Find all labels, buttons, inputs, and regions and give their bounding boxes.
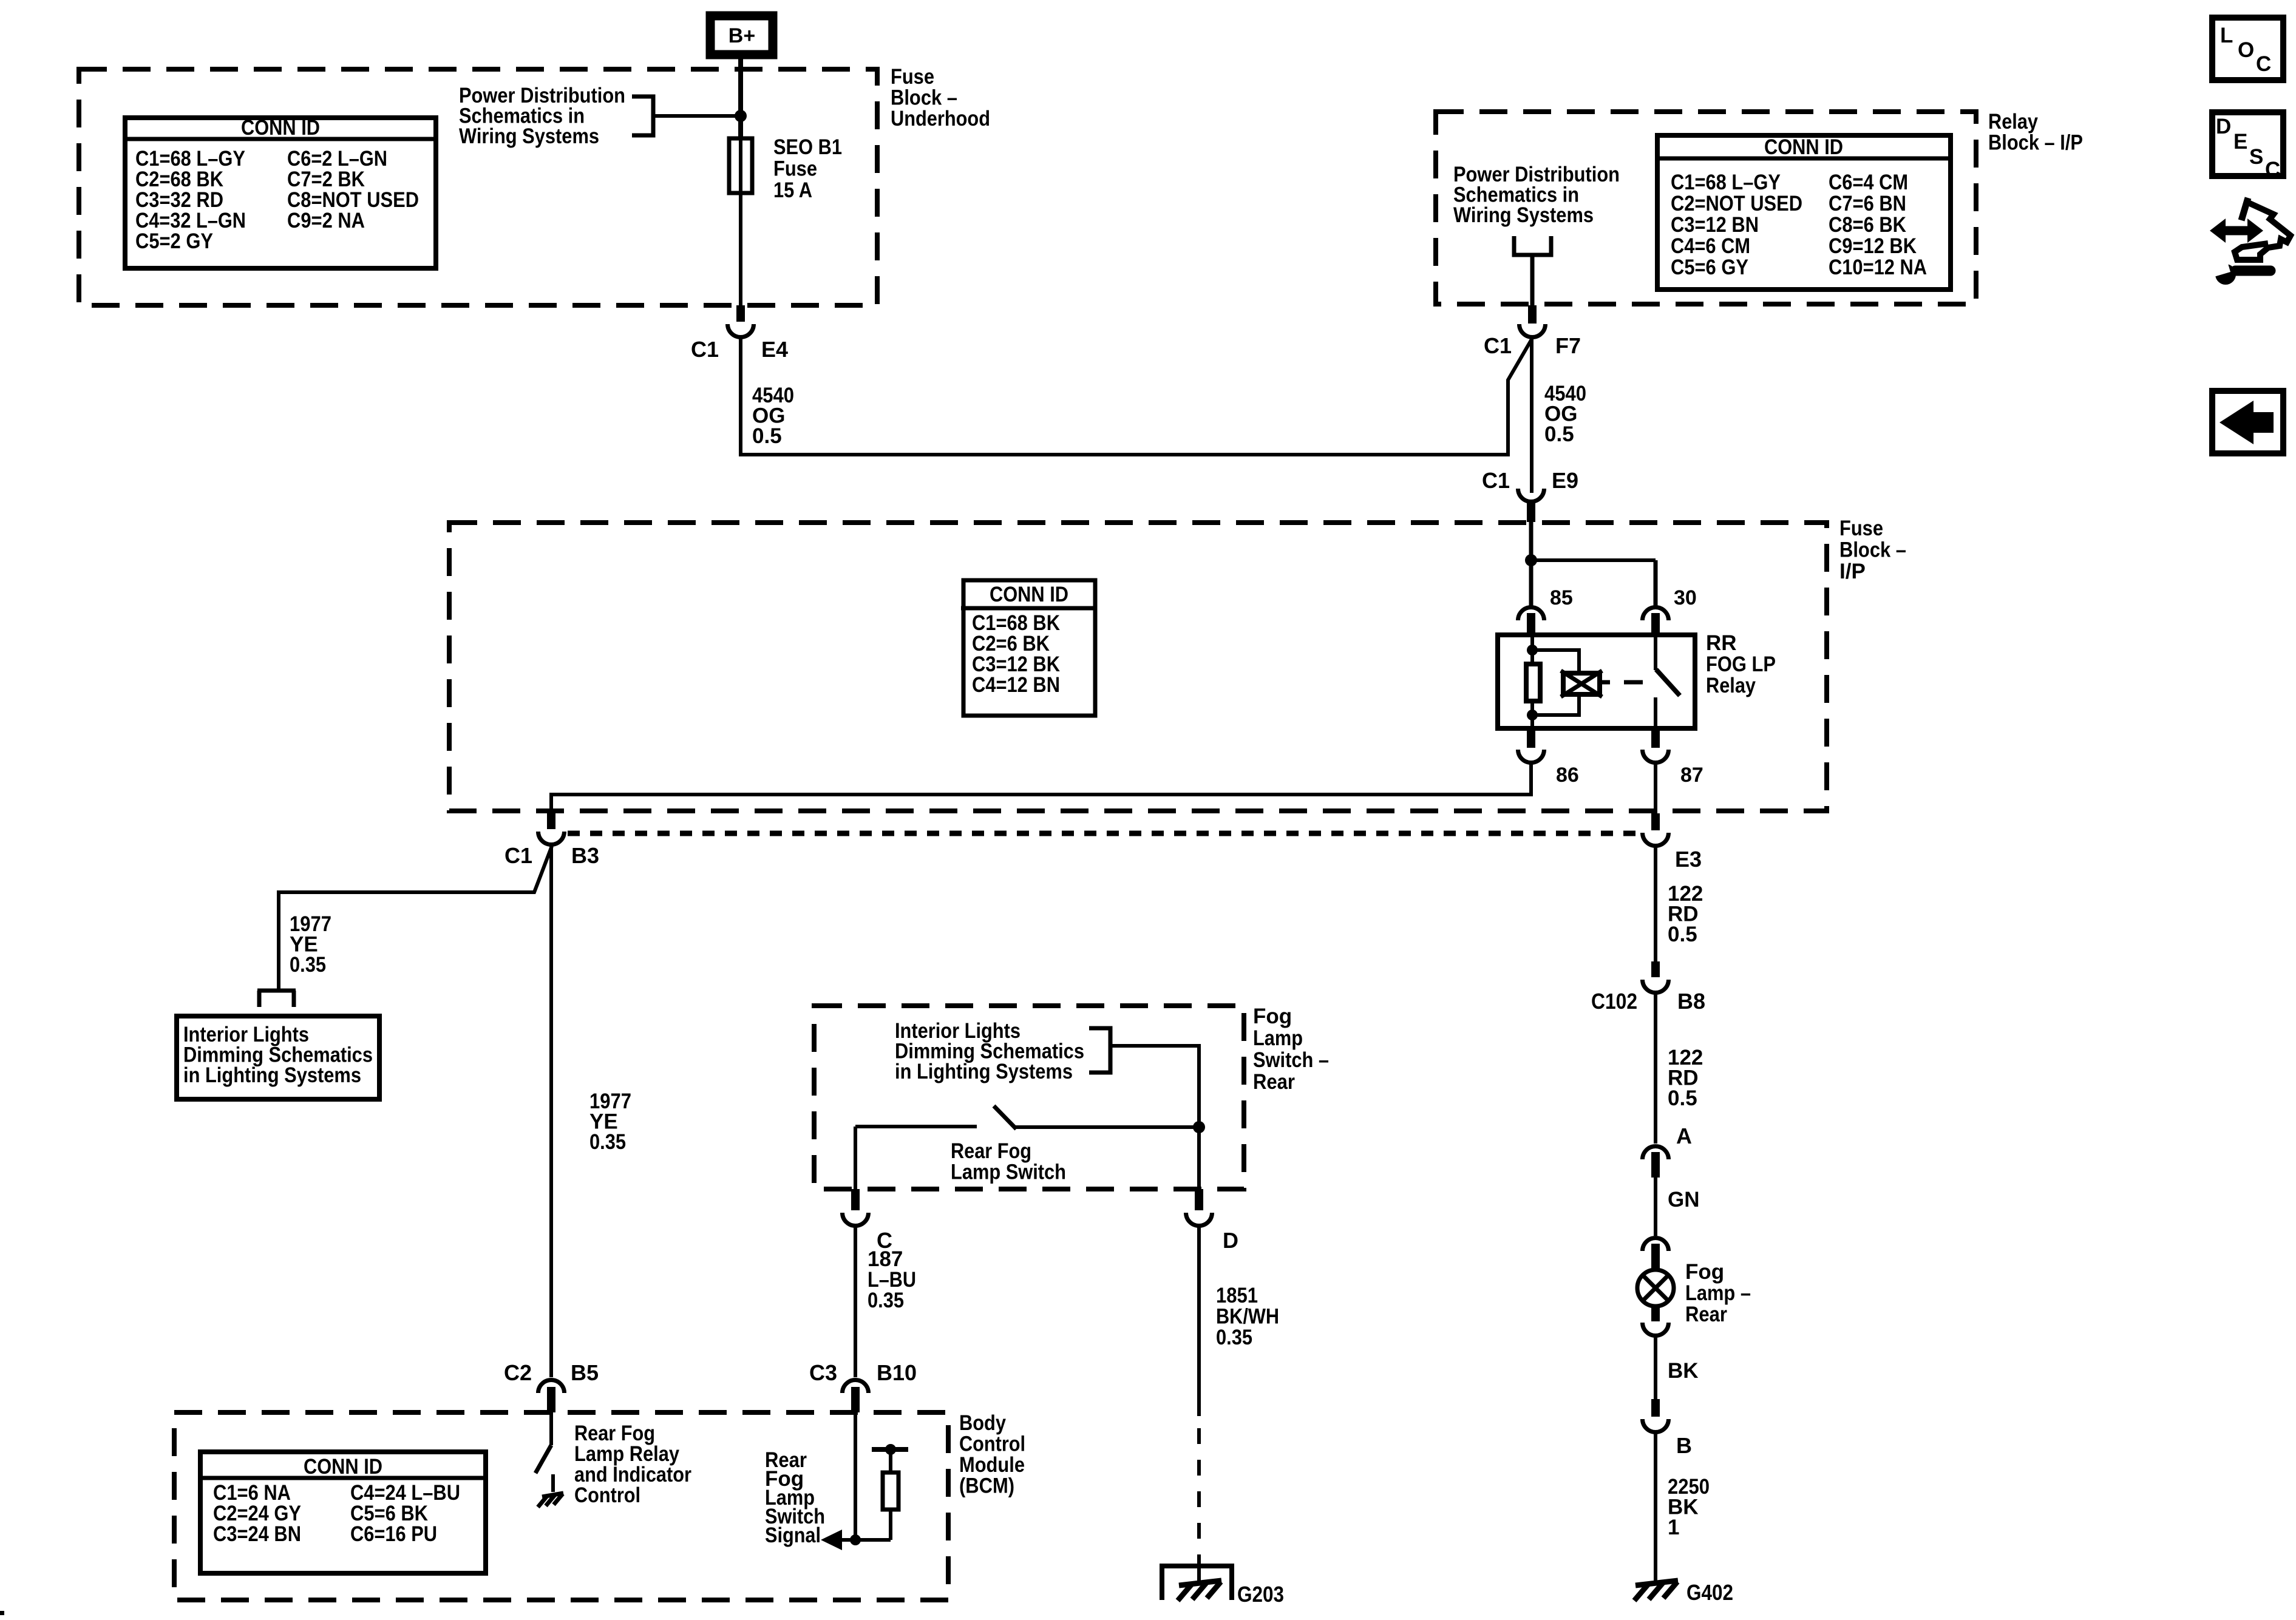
CONN ID table (Fuse Block - I/P) <box>961 580 1097 716</box>
svg-text:in Lighting Systems: in Lighting Systems <box>183 1063 361 1087</box>
icon button back arrow <box>2212 391 2283 453</box>
dotted harness line between B3 and E3 <box>568 831 1641 836</box>
svg-text:C1=68 L–GY: C1=68 L–GY <box>1671 171 1781 194</box>
svg-text:A: A <box>1676 1123 1692 1148</box>
svg-text:E3: E3 <box>1675 847 1702 872</box>
wire: fog lamp to connector B (BK) <box>1654 1337 1657 1399</box>
svg-text:E: E <box>2233 130 2247 154</box>
page corner mark <box>0 1611 4 1615</box>
svg-text:BK: BK <box>1668 1359 1699 1383</box>
svg-text:C7=6 BN: C7=6 BN <box>1829 192 1906 215</box>
switch: rear fog lamp switch <box>855 1106 1199 1189</box>
bracket: power distribution tap (left) <box>632 97 653 135</box>
svg-text:B: B <box>1676 1433 1692 1458</box>
svg-text:86: 86 <box>1556 764 1579 787</box>
wire: B3 branch to interior lights schematic <box>279 846 552 989</box>
wire: bracket to B+ feed <box>653 114 741 118</box>
label Relay Block - I/P <box>1988 110 2083 155</box>
svg-text:30: 30 <box>1674 586 1697 609</box>
svg-text:SEO B1: SEO B1 <box>773 135 842 159</box>
label 1977 YE 0.35 (branch) <box>290 912 331 977</box>
connector pin 86 <box>1518 728 1544 763</box>
dashed box: Fuse Block - I/P <box>449 523 1827 811</box>
svg-text:C102: C102 <box>1591 989 1637 1014</box>
wire: A to fog lamp (GN) <box>1654 1178 1657 1236</box>
svg-text:C1: C1 <box>691 337 719 362</box>
svg-text:D: D <box>2216 115 2231 138</box>
svg-text:C: C <box>2256 52 2271 76</box>
svg-text:GN: GN <box>1668 1188 1700 1212</box>
svg-text:G402: G402 <box>1686 1580 1733 1605</box>
svg-text:Lamp –: Lamp – <box>1685 1281 1751 1305</box>
svg-text:Block – I/P: Block – I/P <box>1988 131 2083 155</box>
connector pin 85 <box>1518 608 1544 637</box>
svg-text:B+: B+ <box>729 24 755 47</box>
svg-text:B5: B5 <box>571 1360 599 1385</box>
svg-text:Fuse: Fuse <box>891 65 934 89</box>
wire: C to B10 (187 L-BU) <box>854 1226 857 1377</box>
wire: E4 down, right to relay block riser <box>741 337 1532 455</box>
label 1851 BK/WH 0.35 <box>1216 1284 1279 1349</box>
label RR FOG LP Relay <box>1706 631 1776 697</box>
svg-text:Control: Control <box>959 1432 1025 1456</box>
bracket: interior lights dimming tap <box>1089 1028 1199 1127</box>
connector D (switch) <box>1186 1189 1212 1225</box>
svg-text:C6=4 CM: C6=4 CM <box>1829 171 1908 194</box>
connector: fog lamp bottom <box>1643 1306 1669 1336</box>
connector C3 B10 <box>843 1380 869 1413</box>
junction dot at fuse feed <box>735 110 747 122</box>
svg-text:Relay: Relay <box>1988 110 2038 134</box>
connector E3 <box>1643 813 1669 846</box>
relay RR FOG LP Relay <box>1498 635 1695 728</box>
svg-text:C3=12 BN: C3=12 BN <box>1671 213 1759 237</box>
svg-text:C9=2 NA: C9=2 NA <box>287 209 365 232</box>
svg-text:Fuse: Fuse <box>1839 517 1883 540</box>
fog lamp rear bulb <box>1637 1270 1674 1306</box>
svg-text:C3=24 BN: C3=24 BN <box>213 1522 301 1546</box>
connector C (switch) <box>843 1189 869 1225</box>
svg-text:C6=16 PU: C6=16 PU <box>350 1522 437 1546</box>
svg-text:Relay: Relay <box>1706 674 1756 697</box>
svg-text:C1: C1 <box>504 843 532 868</box>
svg-text:E4: E4 <box>761 337 788 362</box>
wire: F7 down to E9 <box>1530 339 1533 493</box>
ground G402 <box>1634 1581 1678 1601</box>
svg-text:15 A: 15 A <box>773 178 812 202</box>
wire: E9 to relay pins 85 and 30 <box>1531 522 1656 606</box>
wire: B8 to connector A (122 RD) <box>1654 993 1657 1144</box>
svg-text:BK/WH: BK/WH <box>1216 1305 1279 1329</box>
dashed box: Relay Block - I/P <box>1436 112 1976 304</box>
label Fog Lamp - Rear <box>1685 1260 1751 1326</box>
label Fuse Block - Underhood <box>891 65 990 130</box>
svg-text:O: O <box>2238 38 2254 62</box>
label Rear Fog Lamp Relay and Indicator Control <box>574 1422 691 1507</box>
svg-text:C8=6 BK: C8=6 BK <box>1829 213 1906 237</box>
svg-text:CONN ID: CONN ID <box>241 116 320 140</box>
svg-text:C3: C3 <box>809 1360 837 1385</box>
wire: E3 to C102 B8 (122 RD) <box>1654 846 1657 961</box>
wire: D to ground G203 (1851 BK/WH) <box>1197 1226 1201 1583</box>
CONN ID table (Relay Block - I/P) <box>1655 135 1953 290</box>
svg-text:0.35: 0.35 <box>290 953 326 977</box>
svg-text:S: S <box>2249 145 2263 169</box>
connector C1 F7 (relay block output) <box>1520 305 1546 337</box>
svg-text:C5=2 GY: C5=2 GY <box>135 229 213 253</box>
svg-text:C1: C1 <box>1484 333 1512 358</box>
svg-text:Wiring Systems: Wiring Systems <box>459 124 599 148</box>
svg-text:85: 85 <box>1550 586 1573 609</box>
label 1977 YE 0.35 (main) <box>589 1090 631 1154</box>
icon button LOC <box>2212 18 2283 80</box>
connector C1 E9 (fuse block I/P input) <box>1518 489 1544 522</box>
dashed box: Fuse Block - Underhood <box>79 69 877 305</box>
svg-text:C9=12 BK: C9=12 BK <box>1829 234 1917 258</box>
svg-text:Lamp: Lamp <box>1253 1026 1303 1050</box>
svg-text:C2=NOT USED: C2=NOT USED <box>1671 192 1802 215</box>
note: Power Distribution Schematics in Wiring Systems (left) <box>459 84 625 148</box>
svg-text:C4=6 CM: C4=6 CM <box>1671 234 1750 258</box>
svg-text:G203: G203 <box>1237 1582 1284 1607</box>
svg-text:Rear: Rear <box>1253 1070 1295 1094</box>
wire: B3 down to B5 (1977 YE) <box>549 845 553 1377</box>
svg-text:Switch –: Switch – <box>1253 1048 1329 1072</box>
label Rear Fog Lamp Switch <box>951 1139 1066 1184</box>
svg-text:Control: Control <box>574 1483 640 1507</box>
icon: adjust with wrench (hand/arrow/wrench) <box>2210 198 2291 285</box>
svg-text:0.5: 0.5 <box>752 424 782 448</box>
svg-text:L: L <box>2220 24 2233 47</box>
svg-text:I/P: I/P <box>1839 560 1866 583</box>
wire: pin 87 to connector E3 <box>1654 763 1657 813</box>
svg-text:Module: Module <box>959 1453 1025 1477</box>
svg-text:0.5: 0.5 <box>1668 923 1697 946</box>
CONN ID table (Fuse Block - Underhood) <box>123 116 438 268</box>
connector B (fog lamp ground side) <box>1643 1399 1669 1432</box>
note: Power Distribution Schematics in Wiring Systems (right) <box>1453 163 1620 227</box>
svg-text:Body: Body <box>959 1411 1006 1435</box>
label 187 L-BU 0.35 <box>868 1247 916 1312</box>
label 4540 OG 0.5 (right) <box>1544 382 1586 446</box>
B+ battery feed terminal <box>710 16 773 55</box>
pull-up resistor in BCM <box>872 1449 908 1540</box>
svg-text:Lamp Switch: Lamp Switch <box>951 1161 1066 1184</box>
svg-text:(BCM): (BCM) <box>959 1474 1014 1498</box>
svg-text:1851: 1851 <box>1216 1284 1258 1307</box>
fork: continuation to interior lights dimming <box>257 991 296 1007</box>
svg-text:B8: B8 <box>1677 989 1705 1014</box>
connector A (fog lamp feed) <box>1643 1147 1669 1178</box>
CONN ID table (BCM) <box>198 1452 488 1573</box>
svg-text:C1: C1 <box>1482 468 1510 493</box>
wire: B to ground G402 (2250 BK) <box>1654 1432 1657 1582</box>
connector C1 B3 <box>538 811 565 845</box>
svg-text:0.5: 0.5 <box>1668 1086 1697 1110</box>
label Rear Fog Lamp Switch Signal <box>765 1448 825 1547</box>
connector: fog lamp top <box>1643 1238 1669 1271</box>
svg-text:Fuse: Fuse <box>773 157 817 181</box>
svg-text:Fog: Fog <box>1253 1005 1292 1028</box>
label SEO B1 Fuse 15 A <box>773 135 842 202</box>
note: Interior Lights Dimming Schematics in Lighting Systems (switch) <box>895 1019 1084 1083</box>
wire: B10 to switch signal arrow <box>832 1412 891 1540</box>
switch to ground: rear fog lamp relay control (in BCM) <box>535 1412 563 1507</box>
svg-text:Underhood: Underhood <box>891 107 990 130</box>
svg-text:0.5: 0.5 <box>1544 422 1574 446</box>
label Body Control Module (BCM) <box>959 1411 1025 1498</box>
label 4540 OG 0.5 (left) <box>752 384 794 448</box>
svg-text:RR: RR <box>1706 631 1737 655</box>
svg-text:CONN ID: CONN ID <box>990 583 1068 606</box>
label Fog Lamp Switch - Rear <box>1253 1005 1329 1094</box>
svg-text:CONN ID: CONN ID <box>1764 135 1843 159</box>
junction dot E9 branch <box>1525 554 1537 566</box>
svg-text:C5=6 GY: C5=6 GY <box>1671 256 1748 279</box>
svg-text:Rear Fog: Rear Fog <box>951 1139 1031 1163</box>
svg-text:Block –: Block – <box>1839 538 1906 562</box>
svg-text:0.35: 0.35 <box>868 1289 904 1312</box>
svg-text:0.35: 0.35 <box>589 1130 626 1154</box>
connector pin 87 <box>1643 728 1669 763</box>
svg-text:B10: B10 <box>877 1360 917 1385</box>
svg-text:1: 1 <box>1668 1516 1679 1539</box>
label 122 RD 0.5 (upper) <box>1668 882 1703 946</box>
svg-text:Block –: Block – <box>891 86 957 110</box>
svg-text:D: D <box>1223 1228 1238 1253</box>
wire: B+ down to SEO B1 fuse <box>738 59 743 140</box>
connector C1 E4 (fuse block underhood output) <box>728 305 754 337</box>
svg-text:C4=12 BN: C4=12 BN <box>972 673 1060 697</box>
connector pin 30 <box>1643 608 1669 637</box>
junction dot at switch output <box>1193 1121 1205 1133</box>
svg-text:F7: F7 <box>1555 333 1581 358</box>
svg-text:Wiring Systems: Wiring Systems <box>1453 203 1594 227</box>
arrow: rear fog lamp switch signal <box>821 1530 842 1550</box>
wire: pin 86 to connector B3 <box>551 763 1531 811</box>
svg-text:C10=12 NA: C10=12 NA <box>1829 256 1927 279</box>
junction dot at resistor top <box>885 1444 896 1455</box>
svg-text:FOG LP: FOG LP <box>1706 652 1776 676</box>
svg-text:CONN ID: CONN ID <box>304 1455 382 1479</box>
svg-text:0.35: 0.35 <box>1216 1326 1252 1349</box>
dashed box: Body Control Module (BCM) <box>174 1412 948 1600</box>
svg-text:Rear: Rear <box>1685 1303 1727 1326</box>
connector C2 B5 <box>538 1380 565 1413</box>
dashed box: Fog Lamp Switch - Rear <box>814 1006 1244 1189</box>
box: Interior Lights Dimming Schematics in Lighting Systems <box>177 1016 379 1099</box>
icon button DESC <box>2212 112 2283 181</box>
svg-text:E9: E9 <box>1552 468 1578 493</box>
label Fuse Block - I/P <box>1839 517 1906 583</box>
bracket: power distribution tap (right) <box>1514 236 1551 305</box>
junction dot at B10 signal node <box>850 1534 861 1545</box>
fuse SEO B1 15A <box>729 138 752 193</box>
svg-text:B3: B3 <box>571 843 599 868</box>
label 122 RD 0.5 (lower) <box>1668 1046 1703 1110</box>
ground G203 <box>1162 1566 1232 1601</box>
svg-text:C2: C2 <box>504 1360 532 1385</box>
svg-text:Signal: Signal <box>765 1523 821 1547</box>
connector C102 B8 <box>1643 961 1669 993</box>
label 2250 BK 1 <box>1668 1475 1710 1539</box>
svg-text:Fog: Fog <box>1685 1260 1724 1284</box>
svg-text:C: C <box>2265 158 2280 181</box>
svg-text:87: 87 <box>1680 764 1703 787</box>
svg-text:in Lighting Systems: in Lighting Systems <box>895 1060 1073 1083</box>
